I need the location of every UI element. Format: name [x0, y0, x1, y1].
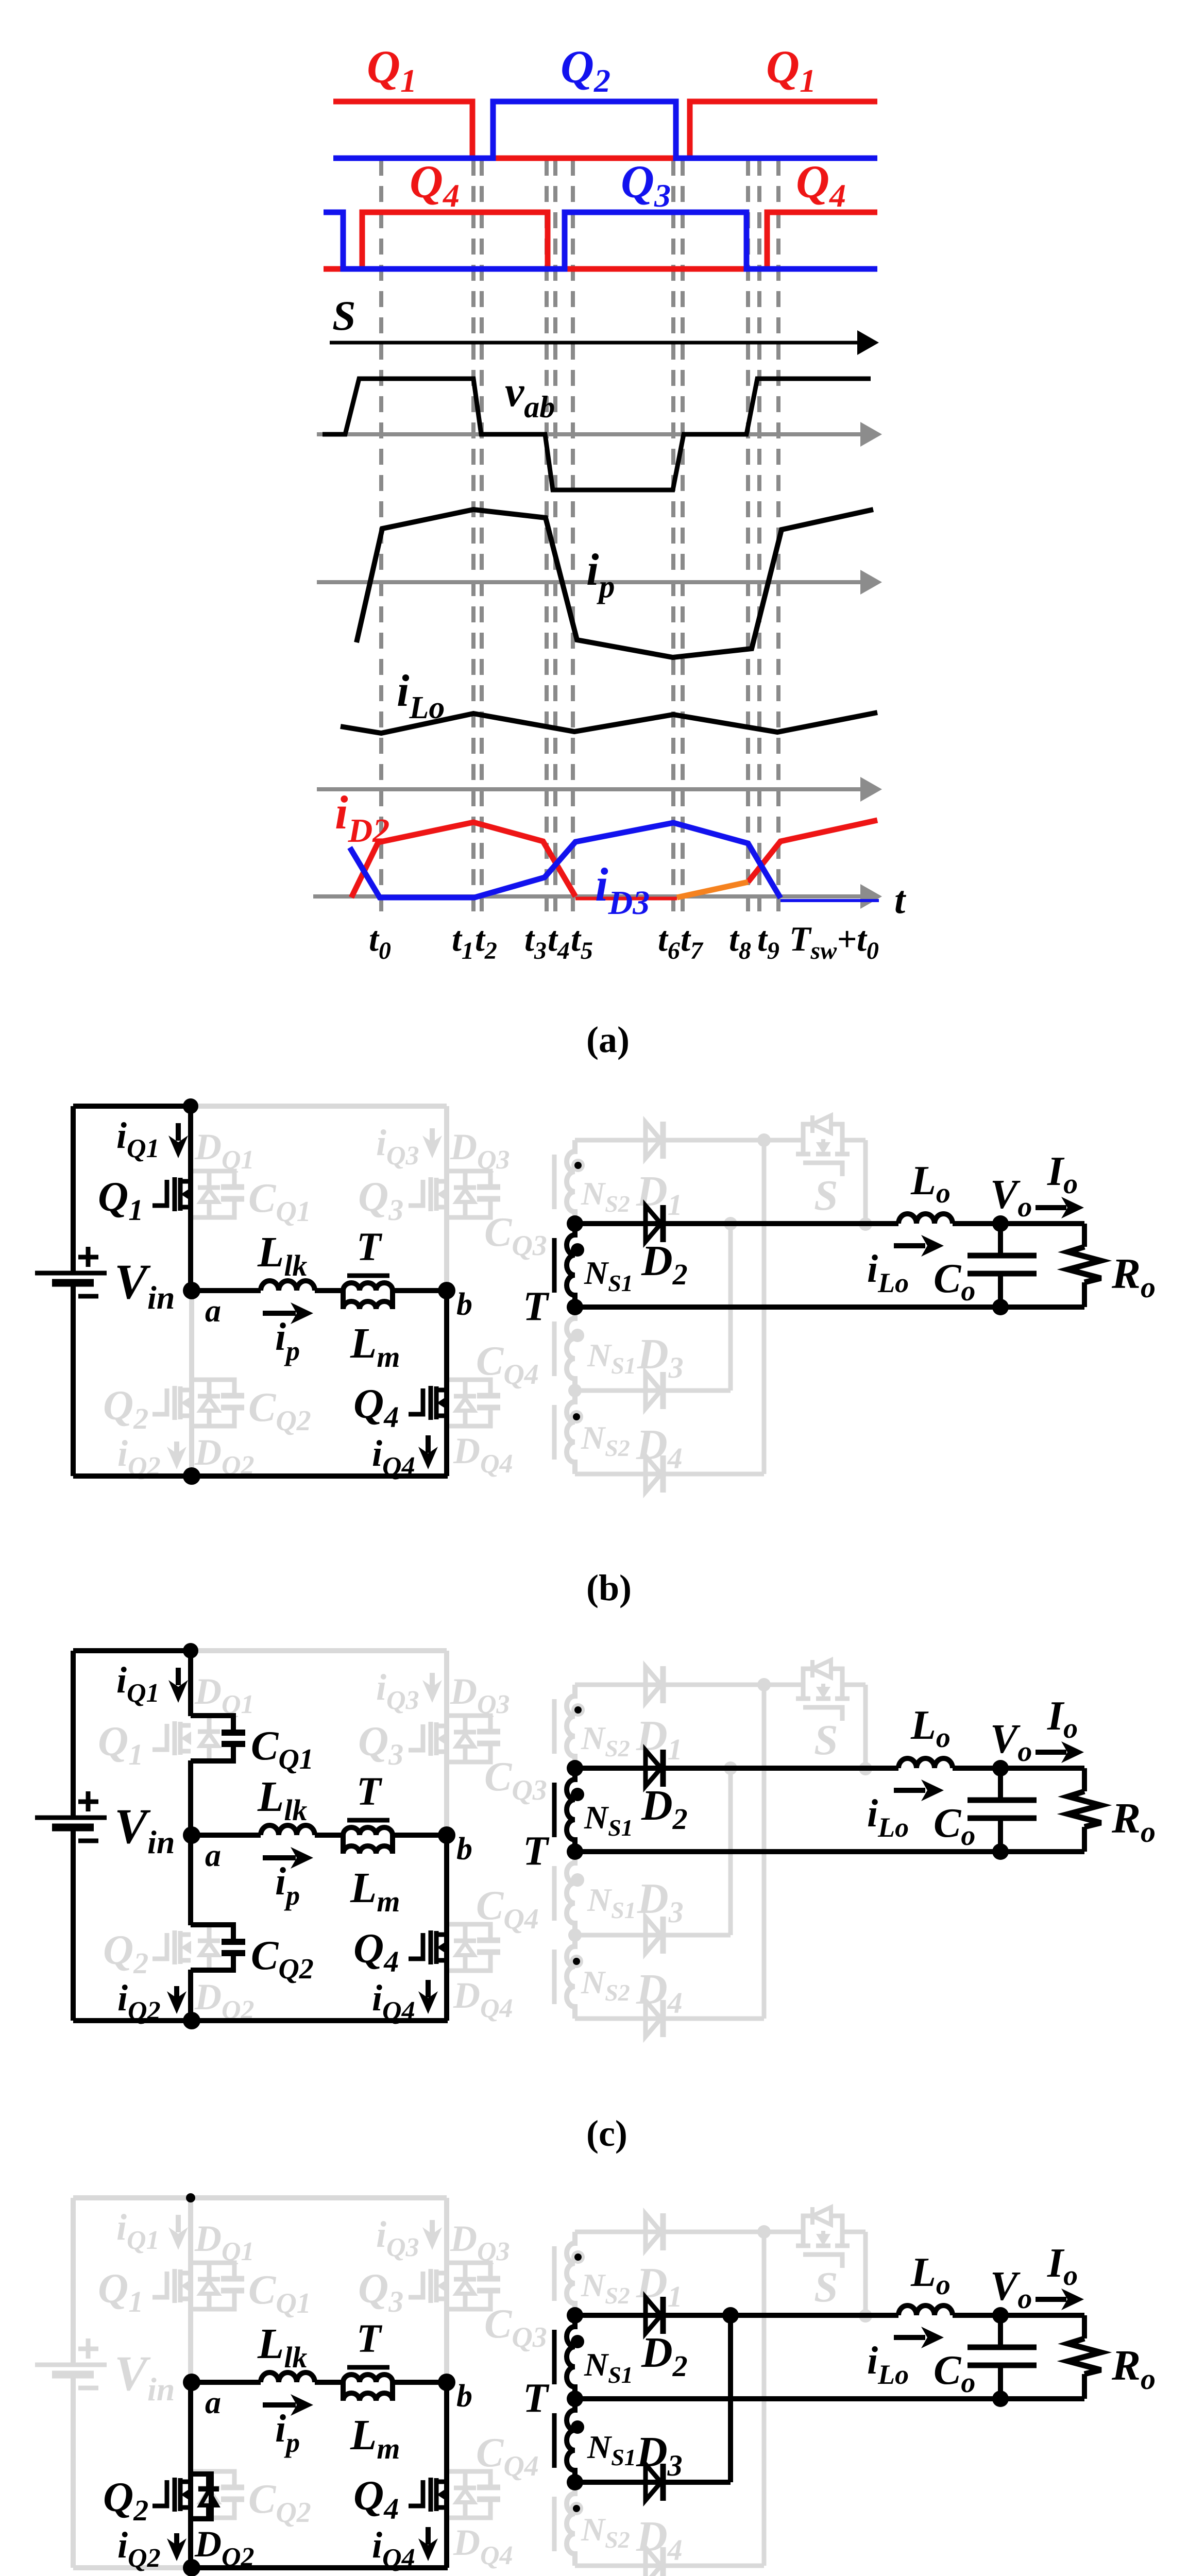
svg-text:T: T: [357, 1224, 383, 1269]
diode D3 (gray): [646, 1372, 663, 1409]
diode D1 (gray): [646, 1122, 663, 1159]
battery Vin: [35, 1791, 107, 1841]
wire top rail (gray part): [191, 1104, 447, 1109]
diode D1 (gray): [646, 1666, 663, 1703]
waveform i_D3 (blue): [350, 823, 780, 898]
axis i_D (gray, bottom): [313, 894, 864, 899]
winding N_S1 upper (black): [554, 2315, 575, 2399]
node winding top: [567, 1760, 583, 1776]
current arrow i_Q3 (gray): [430, 1673, 435, 1687]
winding N_S1 upper (black): [554, 1224, 575, 1307]
waveform Q4 gate (red, row2): [324, 212, 877, 269]
diode-cap clamp of Q1 (gray): [191, 1171, 244, 1217]
node b: [438, 1826, 455, 1844]
svg-text:S: S: [814, 1716, 838, 1764]
svg-text:t: t: [894, 878, 907, 922]
wire battery column upper: [71, 1106, 76, 1273]
winding N_S2 top (gray): [554, 2232, 575, 2315]
node D2/D3 bus top: [722, 2307, 739, 2324]
node Vo: [992, 2307, 1009, 2324]
current arrow I_o: [1036, 1750, 1066, 1755]
svg-text:(c): (c): [586, 2113, 627, 2154]
waveform Q2 gate (blue, row1): [333, 101, 877, 158]
wire right leg upper (gray): [444, 1651, 449, 1835]
winding N_S2 top (gray): [554, 1685, 575, 1768]
wire right leg lower: [444, 1291, 449, 1476]
node top (small): [186, 2193, 195, 2202]
svg-text:T: T: [523, 1828, 550, 1874]
node a: [183, 2374, 200, 2391]
node b: [438, 1282, 455, 1299]
transistor Q1: [152, 1177, 191, 1211]
waveform i_Lo: [341, 713, 877, 733]
winding N_S2 top (gray): [554, 1140, 575, 1224]
axis v_ab (gray): [317, 432, 864, 436]
body diode of Q2 (gray): [198, 1924, 220, 1971]
inductor Lo: [898, 2306, 953, 2315]
resistor Ro: [1082, 1768, 1087, 1791]
diode D4 (gray): [646, 1455, 663, 1493]
winding N_S1 lower (black): [554, 2399, 575, 2482]
waveform i_D2 (red): [351, 822, 575, 897]
node Co bottom: [992, 1299, 1009, 1315]
svg-text:S: S: [332, 292, 356, 339]
svg-text:a: a: [205, 1838, 221, 1873]
wire left leg upper with capacitor jog: [188, 1651, 193, 1716]
wire D4 line (gray): [575, 1472, 764, 1477]
current arrow i_Q4: [426, 2527, 431, 2545]
current arrow i_Lo: [894, 1788, 925, 1793]
svg-text:T: T: [523, 2376, 550, 2421]
wire bottom tap rail: [575, 2396, 1084, 2401]
node Co bottom: [992, 2391, 1009, 2407]
node bottom: [183, 2012, 200, 2029]
diode D3 (gray): [646, 1917, 663, 1954]
node winding top: [567, 1215, 583, 1232]
wire top rail black: [73, 1104, 191, 1109]
winding N_S2 bottom (gray): [554, 2482, 575, 2566]
diode-cap clamp of Q1 (gray): [191, 2263, 244, 2309]
svg-text:T: T: [357, 1769, 383, 1814]
node dots gray: [724, 1217, 737, 1230]
node winding centre tap: [567, 1843, 583, 1860]
waveform i_D2 orange overlap segment: [677, 882, 748, 897]
axis S (black): [330, 341, 861, 345]
current arrow i_Q3 (gray): [430, 1128, 435, 1143]
wire left leg a to Q2 to bottom: [188, 2382, 193, 2568]
wire Lo to Ro: [953, 2313, 1084, 2318]
wire left leg lower (gray): [189, 1291, 194, 1476]
polarity dot N_S2 top (black small): [571, 2250, 585, 2264]
node winding bottom: [567, 2474, 583, 2490]
bus D2/D3 (black): [728, 2315, 733, 2482]
wire bottom tap rail: [575, 1849, 1084, 1854]
current arrow I_o: [1036, 2297, 1066, 2302]
polarity dot N_S2 top (black small): [571, 1159, 585, 1172]
wire T to b: [393, 1288, 447, 1293]
node Co bottom: [992, 1843, 1009, 1860]
diode D3 (black): [646, 2464, 663, 2501]
wire D2 line: [575, 1766, 898, 1771]
wire bottom rail: [192, 2565, 448, 2570]
wire a to Llk: [192, 1833, 261, 1838]
wire D2 line: [575, 2313, 898, 2318]
node winding centre tap: [567, 1299, 583, 1315]
transistor Q3 (gray): [409, 1177, 447, 1211]
polarity dot N_S1 upper: [571, 2335, 584, 2348]
current arrow i_Q2 (gray): [174, 1442, 179, 1454]
inductor Llk: [261, 1825, 315, 1835]
wire battery column (gray): [71, 2198, 76, 2365]
current arrow i_Q4: [426, 1435, 431, 1453]
transistor Q3 (gray): [409, 2269, 447, 2303]
dashed time grid t0..t9,Tsw: [381, 160, 778, 918]
current arrow i_Q1 (gray): [176, 2215, 181, 2232]
transformer T primary: [343, 1827, 393, 1854]
current arrow i_Q3 (gray): [430, 2220, 435, 2234]
wire bottom rail: [73, 1473, 448, 1479]
transistor Q4: [409, 1386, 447, 1420]
diode D2: [646, 1205, 663, 1242]
wire battery column lower: [71, 1283, 76, 1476]
node bottom: [183, 1467, 200, 1485]
transistor Q2 (black): [152, 2478, 191, 2512]
switch S (gray): [763, 1115, 865, 1224]
waveform v_ab: [323, 379, 871, 490]
wire bottom rail left (gray): [73, 2565, 192, 2570]
current arrow i_Q1: [176, 1668, 181, 1685]
diode-cap clamp of Q2 (gray): [191, 2471, 244, 2518]
current arrow i_Q2: [174, 2533, 179, 2546]
wire right leg lower: [444, 1835, 449, 2021]
wire left leg upper: [188, 1106, 193, 1291]
wire D1 line (gray): [575, 2230, 764, 2234]
wire top rail (gray): [73, 2195, 447, 2200]
diode-cap clamp of Q4 (gray): [447, 1924, 500, 1971]
diode-cap clamp of Q3 (gray): [447, 1171, 500, 1217]
current arrow i_Lo: [894, 2335, 925, 2340]
waveform i_D2 on-axis segment (dark red): [575, 897, 677, 901]
capacitor Co: [998, 2315, 1003, 2347]
wire right leg lower: [444, 2382, 449, 2568]
body diode D_Q2 loop (black): [191, 2474, 219, 2519]
transistor Q4: [409, 1930, 447, 1964]
node dots gray: [757, 2225, 771, 2239]
bus D1/D4 (gray): [762, 1685, 767, 2019]
diode D4 (gray): [646, 2547, 663, 2576]
polarity dot N_S1 lower (gray): [571, 1873, 584, 1887]
diode D4 (gray): [646, 2000, 663, 2037]
wire D1 line (gray): [575, 1138, 764, 1143]
bus D2/D3 (gray): [728, 1768, 733, 1935]
wire Lo to Ro: [953, 1221, 1084, 1226]
svg-text:T: T: [357, 2316, 383, 2361]
bus D1/D4 (gray): [762, 1140, 767, 1474]
wire Llk to T: [315, 1833, 343, 1838]
switch S (gray): [763, 2207, 865, 2316]
inductor Lo: [898, 1214, 953, 1224]
current arrow i_Q4: [426, 1980, 431, 1997]
waveform Q3 gate (blue, row2): [324, 212, 877, 269]
polarity dot N_S1 lower (gray): [571, 1329, 584, 1342]
inductor Llk: [261, 1281, 315, 1291]
time labels: [369, 919, 879, 964]
wire a to Llk: [192, 2380, 261, 2385]
polarity dot N_S1 upper: [571, 1788, 584, 1801]
diode-cap clamp of Q3 (gray): [447, 2263, 500, 2309]
wire D1 line (gray): [575, 1683, 764, 1687]
wire left leg lower with capacitor jog: [188, 1835, 193, 1925]
wire Llk to T: [315, 2380, 343, 2385]
node dots gray: [724, 1761, 737, 1775]
wire top rail (gray part): [191, 1648, 447, 1653]
winding N_S1 lower (gray): [554, 1307, 575, 1391]
diode-cap clamp of Q4 (gray): [447, 1380, 500, 1426]
svg-text:a: a: [205, 2385, 221, 2420]
transistor Q2 (gray): [152, 1930, 191, 1964]
winding N_S2 bottom (gray): [554, 1935, 575, 2019]
polarity dot N_S2 bottom (black small): [570, 1410, 583, 1423]
inductor Llk: [261, 2372, 315, 2382]
waveform i_p: [357, 510, 873, 657]
current arrow i_p: [263, 1311, 296, 1316]
svg-text:S: S: [814, 2263, 838, 2311]
diode-cap clamp of Q2 (gray): [191, 1380, 244, 1426]
transistor Q1 (gray): [152, 1721, 191, 1755]
wire D3 line (black): [575, 2480, 731, 2485]
wire battery column lower: [71, 1827, 76, 2021]
diode-cap clamp of Q4 (gray): [447, 2471, 500, 2518]
winding N_S1 upper (black): [554, 1768, 575, 1852]
transistor Q1 (gray): [152, 2269, 191, 2303]
node bottom: [183, 2559, 200, 2576]
transistor Q4: [409, 2478, 447, 2512]
transformer T primary: [343, 2375, 393, 2401]
diode D1 (gray): [646, 2213, 663, 2250]
transistor Q3 (gray): [409, 1722, 447, 1756]
wire T to b: [393, 2380, 447, 2385]
battery Vin: [35, 1247, 107, 1296]
node b: [438, 2374, 455, 2391]
svg-text:b: b: [456, 2379, 472, 2414]
wire battery column upper: [71, 1651, 76, 1818]
wire D3 line (gray): [575, 1388, 731, 1393]
waveform i_D2 right part (red): [748, 820, 877, 882]
svg-text:(b): (b): [586, 1567, 632, 1608]
current arrow i_Q2: [174, 1986, 179, 1998]
capacitor Co: [998, 1224, 1003, 1256]
polarity dot N_S2 bottom (black small): [570, 1955, 583, 1968]
diode D2: [646, 1750, 663, 1787]
transistor Q2 (gray): [152, 1386, 191, 1420]
wire right leg upper (gray): [444, 1106, 449, 1291]
wire a to Llk: [192, 1288, 261, 1293]
polarity dot N_S2 top (black small): [571, 1703, 585, 1717]
current arrow i_Lo: [894, 1243, 925, 1248]
battery Vin (gray): [35, 2338, 107, 2388]
wire D3 line (gray): [575, 1933, 731, 1938]
wire top rail black: [73, 1648, 191, 1653]
bus D1/D4 (gray): [762, 2232, 767, 2566]
svg-text:(a): (a): [586, 1019, 630, 1060]
axis below i_Lo (gray): [317, 787, 864, 791]
node a: [183, 1826, 200, 1844]
wire D4 line (gray): [575, 2564, 764, 2568]
polarity dot N_S1 lower: [571, 2420, 584, 2434]
wire right leg upper (gray): [444, 2198, 449, 2382]
current arrow i_Q1: [176, 1123, 181, 1141]
wire left leg upper (gray): [188, 2198, 193, 2382]
node Vo: [992, 1760, 1009, 1776]
node winding top: [567, 2307, 583, 2324]
diode D2: [646, 2297, 663, 2334]
wire Lo to Ro: [953, 1766, 1084, 1771]
node top: [183, 1643, 198, 1658]
winding N_S1 lower (gray): [554, 1852, 575, 1935]
winding N_S2 bottom (gray): [554, 1391, 575, 1474]
axis i_p (gray): [317, 580, 864, 584]
svg-text:b: b: [456, 1832, 472, 1867]
polarity dot N_S2 bottom (black small): [570, 2502, 583, 2515]
capacitor C_Q1: [191, 1716, 245, 1761]
current arrow i_p: [263, 1855, 296, 1860]
waveform i_D3 on-axis tail (blue): [780, 899, 879, 902]
node top: [183, 1098, 198, 1114]
svg-text:b: b: [456, 1287, 472, 1322]
node Vo: [992, 1215, 1009, 1232]
bus D2/D3 (gray): [728, 1224, 733, 1391]
waveform Q1 gate (red, row1): [333, 101, 877, 158]
wire T to b: [393, 1833, 447, 1838]
switch S (gray): [763, 1660, 865, 1769]
diode-cap clamp of Q3 (gray): [447, 1716, 500, 1762]
wire bottom tap rail: [575, 1304, 1084, 1310]
wire bottom rail: [73, 2018, 448, 2023]
current arrow I_o: [1036, 1205, 1066, 1210]
polarity dot N_S1 upper: [571, 1243, 584, 1257]
wire Llk to T: [315, 1288, 343, 1293]
node winding centre tap: [567, 2391, 583, 2407]
transformer T primary: [343, 1283, 393, 1309]
wire D4 line (gray): [575, 2016, 764, 2021]
body diode of Q1 (gray): [198, 1715, 220, 1761]
capacitor C_Q2: [191, 1925, 245, 1970]
capacitor Co: [998, 1768, 1003, 1800]
resistor Ro: [1082, 1224, 1087, 1247]
wire D2 line: [575, 1221, 898, 1226]
resistor Ro: [1082, 2315, 1087, 2338]
node a: [183, 1282, 200, 1299]
current arrow i_p: [263, 2402, 296, 2408]
svg-text:T: T: [523, 1284, 550, 1329]
svg-text:S: S: [814, 1172, 838, 1219]
svg-text:a: a: [205, 1294, 221, 1329]
inductor Lo: [898, 1758, 953, 1768]
